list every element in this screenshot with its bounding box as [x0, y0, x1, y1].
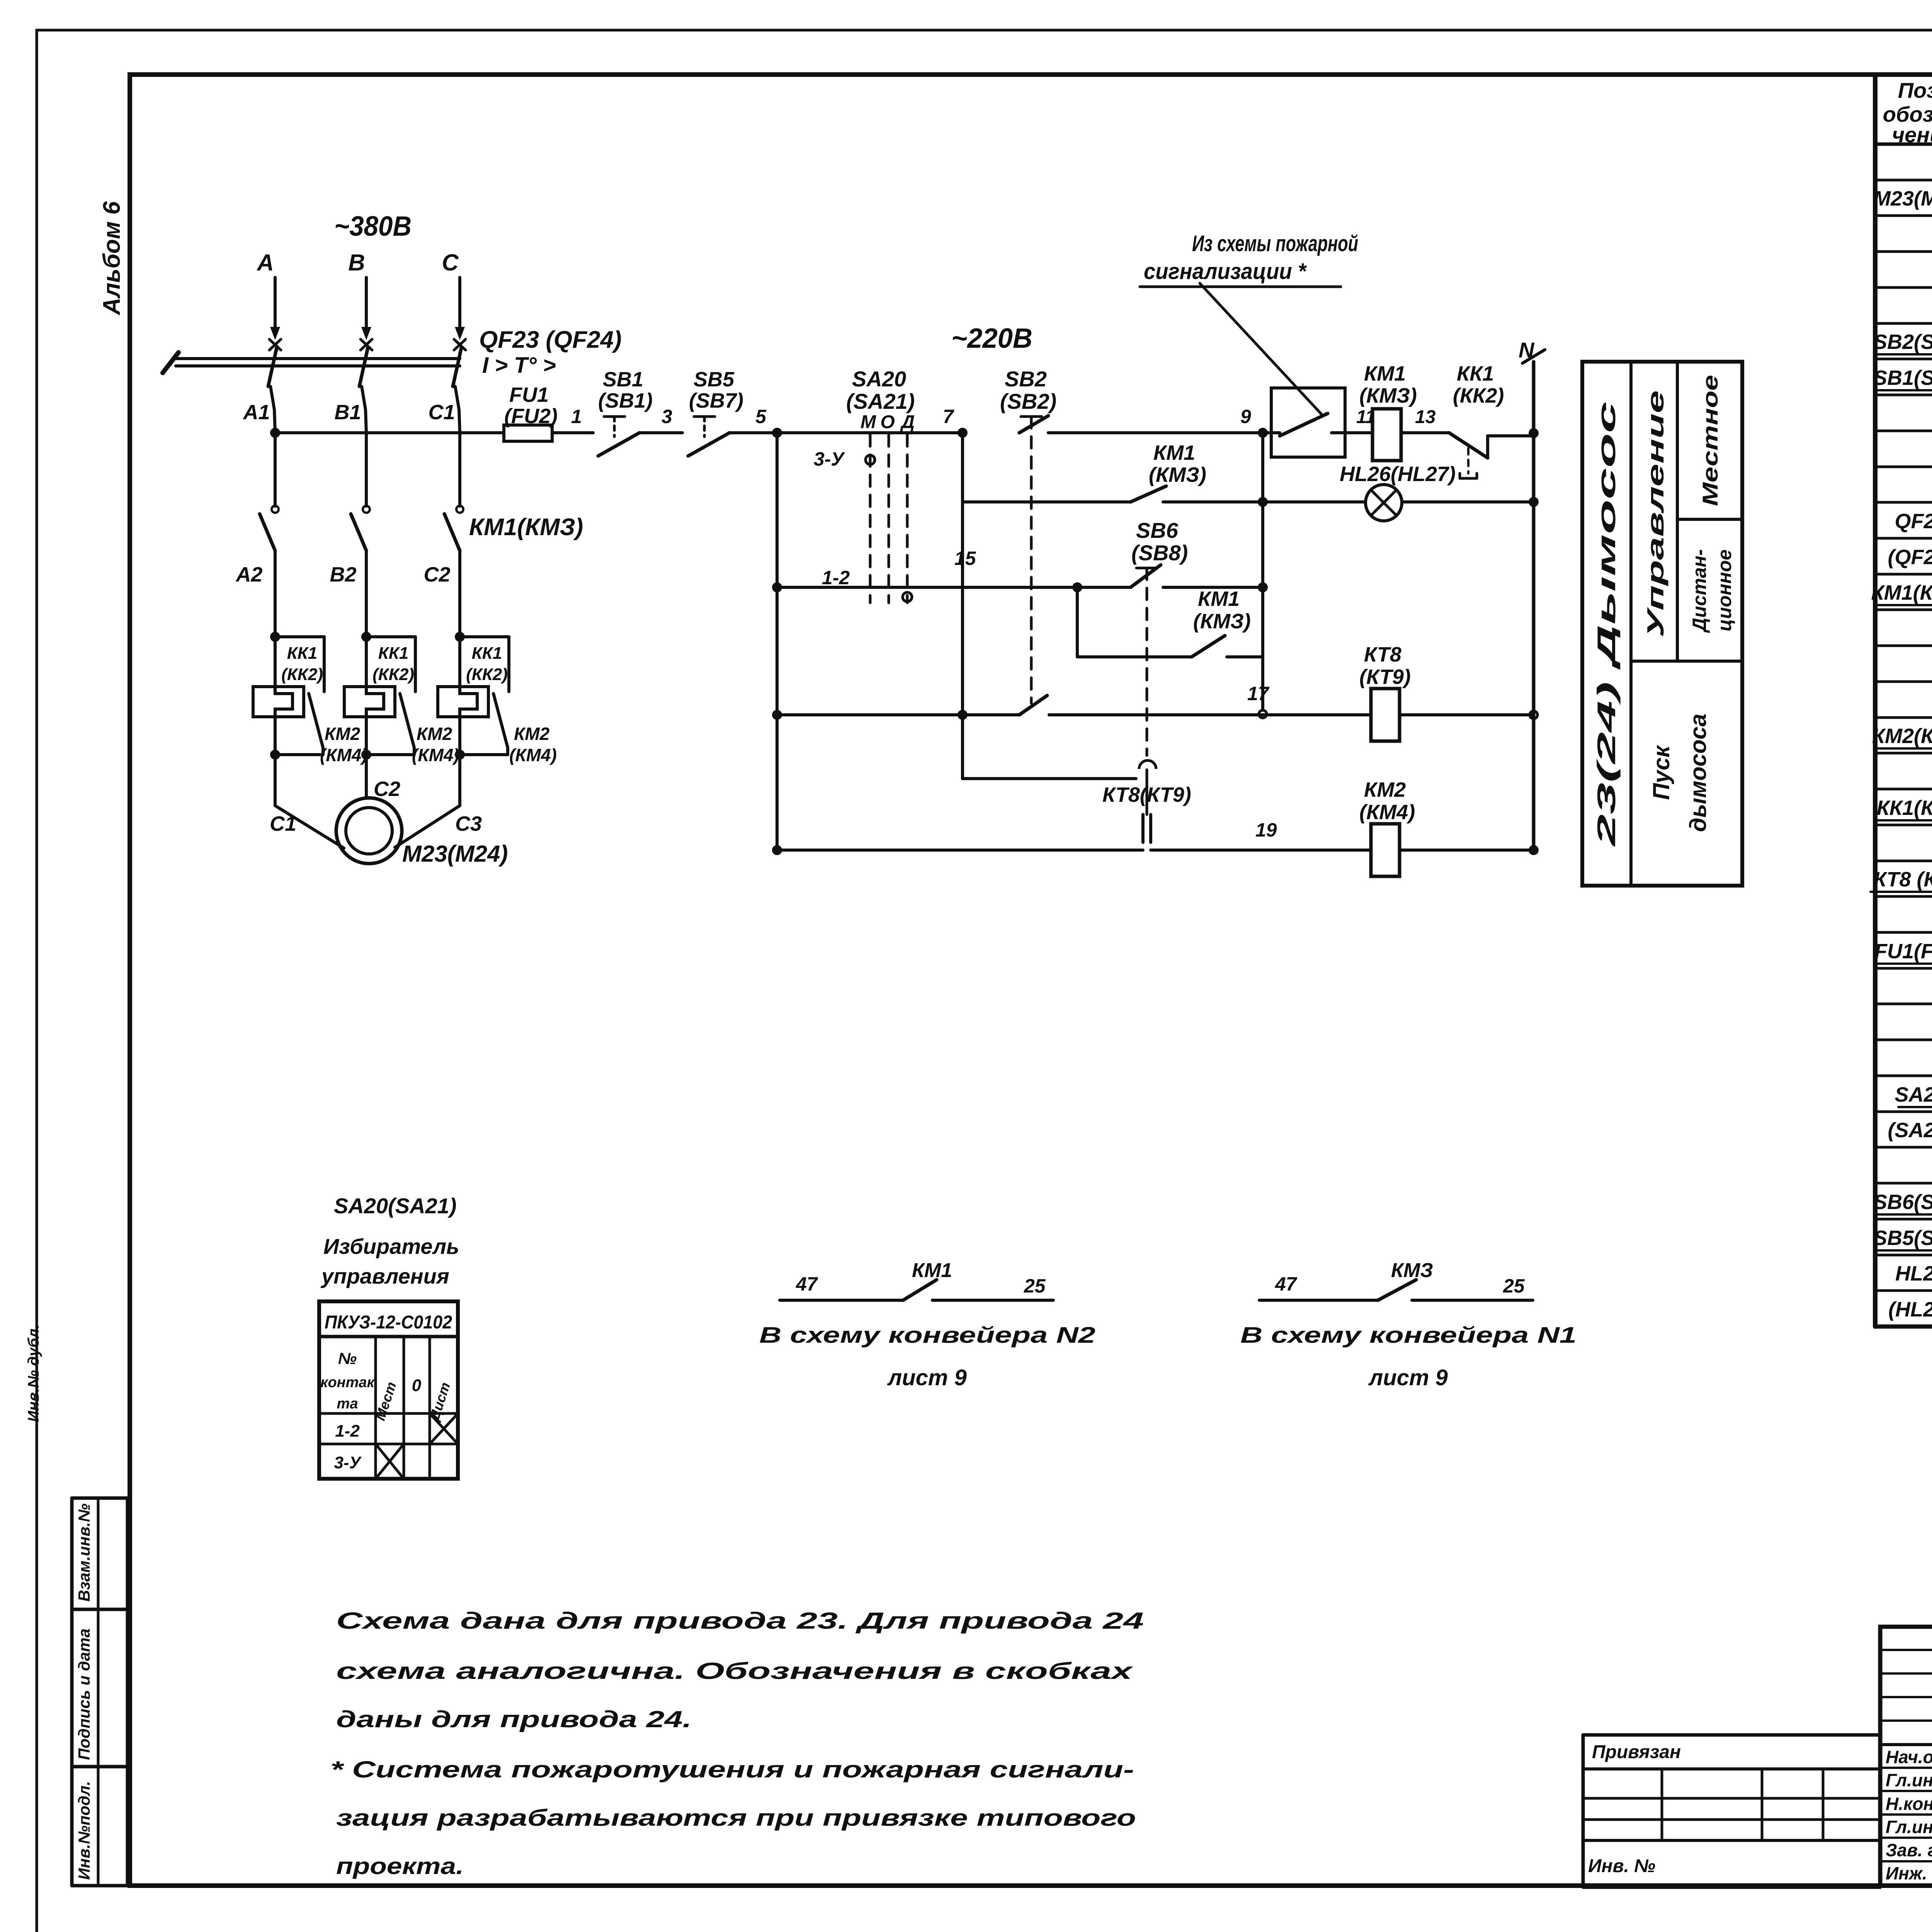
- phase vertical segments down to KM1 contacts: [274, 433, 277, 506]
- svg-text:№: №: [338, 1349, 357, 1367]
- svg-text:С3: С3: [455, 812, 482, 835]
- svg-text:КТ8: КТ8: [1364, 643, 1401, 666]
- svg-text:0: 0: [412, 1376, 422, 1395]
- svg-text:SB5: SB5: [694, 368, 735, 391]
- KK1 release dashed link and symbol: [1467, 448, 1469, 473]
- svg-text:(SA21): (SA21): [1888, 1119, 1932, 1142]
- svg-text:А1: А1: [242, 401, 270, 424]
- svg-text:дымососа: дымососа: [1685, 714, 1711, 832]
- svg-text:9: 9: [1240, 406, 1251, 427]
- svg-text:КМ1: КМ1: [1364, 362, 1406, 385]
- svg-text:та: та: [337, 1396, 358, 1412]
- svg-text:ционное: ционное: [1714, 549, 1735, 631]
- svg-text:(КК2): (КК2): [466, 665, 508, 684]
- svg-text:О: О: [880, 412, 895, 432]
- breaker pole blade: [453, 348, 461, 386]
- svg-text:КТ8(КТ9): КТ8(КТ9): [1102, 783, 1191, 806]
- svg-text:(SB2): (SB2): [1000, 389, 1056, 413]
- svg-text:SB2: SB2: [1005, 367, 1047, 391]
- svg-text:(КК2): (КК2): [1453, 384, 1504, 407]
- svg-text:SA20: SA20: [852, 367, 906, 391]
- svg-text:SB1(SB1): SB1(SB1): [1873, 366, 1932, 389]
- svg-text:(КК2): (КК2): [281, 665, 323, 684]
- svg-text:25: 25: [1503, 1275, 1525, 1297]
- svg-text:* Система пожаротушения и: * Система пожаротушения и пожарная сигна…: [330, 1757, 1134, 1782]
- svg-text:КМ2: КМ2: [1364, 778, 1406, 801]
- svg-text:SA20: SA20: [1895, 1083, 1932, 1106]
- rung 15 with SB6(SB8): [776, 433, 779, 850]
- svg-text:1-2: 1-2: [822, 567, 850, 588]
- svg-text:(КМ4): (КМ4): [320, 745, 367, 765]
- svg-text:(SB1): (SB1): [598, 389, 653, 412]
- breaker contact cross mark phase В: [361, 339, 372, 350]
- svg-text:Гл.инж.пр.: Гл.инж.пр.: [1886, 1817, 1932, 1837]
- wire node 1: [552, 431, 593, 434]
- svg-text:~380В: ~380В: [334, 211, 412, 242]
- svg-text:47: 47: [1275, 1273, 1298, 1295]
- KM1 self hold rung: [961, 433, 964, 502]
- wire node 5: [730, 431, 963, 434]
- svg-text:Инв. №: Инв. №: [1588, 1856, 1655, 1876]
- svg-text:КК1: КК1: [287, 644, 318, 663]
- svg-text:1-2: 1-2: [335, 1422, 360, 1440]
- svg-text:(QF24): (QF24): [1888, 546, 1932, 569]
- svg-text:(КТ9): (КТ9): [1359, 665, 1411, 689]
- breaker contact cross mark phase С: [454, 339, 466, 350]
- svg-text:С: С: [442, 250, 459, 276]
- svg-text:КМ1: КМ1: [1153, 441, 1195, 464]
- svg-text:А2: А2: [235, 563, 262, 586]
- parts list table grid: [1873, 75, 1878, 1327]
- svg-text:КМ2: КМ2: [514, 724, 550, 744]
- svg-text:А: А: [256, 250, 274, 276]
- svg-text:QF23: QF23: [1895, 510, 1932, 533]
- rung 19 with contactor coil KM2(KM4): [772, 845, 782, 855]
- svg-text:сигнализации *: сигнализации *: [1144, 259, 1307, 284]
- title block outline: [1880, 1627, 1932, 1886]
- svg-text:(КК2): (КК2): [372, 665, 414, 684]
- thermal relay KK1(KK2) element: [270, 632, 280, 642]
- svg-text:Зав. гр.: Зав. гр.: [1886, 1840, 1932, 1860]
- svg-text:(КМ4): (КМ4): [412, 745, 459, 765]
- svg-text:N: N: [1519, 338, 1535, 362]
- svg-text:КМ1: КМ1: [912, 1259, 952, 1282]
- X mark contact 3-U Mest: [376, 1444, 404, 1479]
- svg-text:КК1: КК1: [1457, 362, 1494, 385]
- wire node 3: [639, 431, 682, 434]
- svg-text:17: 17: [1247, 683, 1270, 704]
- rung 17 with time relay coil KT8(KT9): [772, 710, 782, 720]
- function designation box: [1582, 362, 1742, 886]
- KM3 aux contact to conveyor 1: [1259, 1299, 1378, 1302]
- svg-text:С2: С2: [374, 777, 400, 801]
- svg-text:7: 7: [943, 406, 954, 427]
- breaker contact cross mark phase А: [269, 339, 281, 350]
- svg-text:(КМЗ): (КМЗ): [1149, 463, 1206, 486]
- svg-text:SA20(SA21): SA20(SA21): [334, 1194, 456, 1218]
- svg-text:лист 9: лист 9: [887, 1365, 967, 1390]
- svg-text:В1: В1: [334, 401, 361, 424]
- KM2(KM4) bypass contact: [400, 694, 414, 748]
- svg-text:КМ1: КМ1: [1198, 587, 1240, 611]
- svg-text:3: 3: [662, 406, 672, 427]
- svg-text:С1: С1: [428, 401, 455, 424]
- selector contact table PKUZ-12-C0102: [319, 1301, 458, 1479]
- svg-text:В схему конвейера N2: В схему конвейера N2: [759, 1323, 1095, 1348]
- svg-text:Взам.инв.№: Взам.инв.№: [75, 1503, 93, 1602]
- signature table small upper rows: [1880, 1649, 1932, 1651]
- svg-text:В схему конвейера N1: В схему конвейера N1: [1240, 1323, 1577, 1348]
- breaker pole blade: [268, 348, 277, 386]
- svg-text:(SA21): (SA21): [846, 389, 915, 413]
- KT8 delayed contact branch: [961, 715, 964, 779]
- svg-text:HL26(HL27): HL26(HL27): [1340, 463, 1456, 486]
- wire node 13: [1401, 431, 1449, 434]
- motor feeder wires: [274, 755, 277, 806]
- svg-text:КМ2(КМ4): КМ2(КМ4): [1872, 724, 1932, 748]
- SB2 mechanical dashed link: [1030, 417, 1033, 703]
- svg-text:Н.контр: Н.контр: [1886, 1794, 1932, 1814]
- svg-text:КМ2: КМ2: [325, 724, 361, 744]
- svg-text:М23(М24): М23(М24): [1873, 187, 1932, 210]
- privyazan block: [1583, 1733, 1880, 1737]
- KM2(KM4) bypass contact: [493, 694, 508, 748]
- svg-text:SB2(SB2): SB2(SB2): [1873, 330, 1932, 354]
- svg-text:КМ1(КМЗ): КМ1(КМЗ): [469, 514, 583, 541]
- svg-text:(КМЗ): (КМЗ): [1193, 610, 1251, 633]
- breaker pole blade: [359, 348, 368, 386]
- X mark contact 1-2 Dist: [430, 1413, 458, 1444]
- svg-text:(HL27): (HL27): [1888, 1298, 1932, 1321]
- svg-text:15: 15: [954, 548, 976, 569]
- svg-text:даны для привода 24.: даны для привода 24.: [336, 1706, 692, 1732]
- svg-text:FU1(FU2): FU1(FU2): [1874, 940, 1932, 963]
- control tap node on phase A: [270, 428, 280, 438]
- svg-text:КК1: КК1: [378, 644, 409, 663]
- svg-text:13: 13: [1415, 407, 1436, 427]
- svg-text:3-У: 3-У: [334, 1453, 362, 1472]
- svg-text:QF23 (QF24): QF23 (QF24): [479, 327, 622, 353]
- svg-text:Дистан-: Дистан-: [1689, 549, 1710, 633]
- svg-text:управления: управления: [320, 1264, 449, 1288]
- KM1 aux contact to conveyor 2: [780, 1299, 903, 1302]
- svg-text:(SB7): (SB7): [689, 389, 743, 412]
- SA20 dashed position lines: [869, 435, 872, 603]
- svg-text:Управление: Управление: [1643, 390, 1668, 638]
- svg-text:КМ2: КМ2: [417, 724, 452, 744]
- svg-text:ПКУЗ-12-С0102: ПКУЗ-12-С0102: [325, 1312, 452, 1333]
- signature table row lines: [1880, 1767, 1932, 1769]
- svg-text:SB5(SB7): SB5(SB7): [1873, 1226, 1932, 1250]
- svg-text:КМ1(КМЗ): КМ1(КМЗ): [1871, 581, 1932, 604]
- breaker handle tick: [163, 352, 179, 373]
- lamp rung with HL26(HL27): [1261, 433, 1264, 502]
- svg-text:Поз.: Поз.: [1898, 78, 1932, 102]
- svg-text:Подпись и дата: Подпись и дата: [75, 1629, 93, 1760]
- fire alarm interface box: [1271, 388, 1345, 457]
- svg-text:В: В: [348, 250, 365, 276]
- thermal relay KK1(KK2) element: [455, 632, 465, 642]
- svg-text:Альбом 6: Альбом 6: [99, 201, 125, 316]
- KM1 main contacts three poles: [272, 506, 279, 513]
- svg-text:зация разрабатываются при: зация разрабатываются при привязке типов…: [336, 1805, 1136, 1831]
- svg-text:3-У: 3-У: [814, 448, 845, 470]
- svg-text:47: 47: [796, 1273, 818, 1295]
- svg-text:КМЗ: КМЗ: [1391, 1259, 1433, 1282]
- svg-text:(КМ4): (КМ4): [1359, 801, 1415, 824]
- svg-text:С2: С2: [423, 563, 450, 586]
- svg-text:~220В: ~220В: [951, 323, 1032, 354]
- svg-text:(КМ4): (КМ4): [509, 745, 557, 765]
- neutral N bus: [1529, 428, 1539, 438]
- svg-text:(FU2): (FU2): [504, 405, 558, 428]
- svg-text:SB6: SB6: [1136, 518, 1179, 543]
- svg-text:Инв.№подл.: Инв.№подл.: [75, 1781, 93, 1880]
- svg-text:КК1(КК2): КК1(КК2): [1877, 796, 1932, 820]
- svg-text:проекта.: проекта.: [336, 1853, 464, 1879]
- svg-text:Схема дана для привода: Схема дана для привода 23. Для привода 2…: [336, 1608, 1144, 1634]
- motor M23(M24) circle: [336, 798, 402, 864]
- svg-text:Инж.: Инж.: [1886, 1863, 1927, 1883]
- left margin stamp column: [70, 1498, 74, 1886]
- KM2(KM4) bypass contact: [309, 694, 323, 748]
- breaker QF23 linkage double bar: [176, 357, 460, 360]
- svg-text:КК1: КК1: [472, 644, 502, 663]
- svg-text:чение: чение: [1892, 122, 1932, 147]
- svg-text:FU1: FU1: [509, 383, 549, 406]
- svg-text:Из схемы пожарной: Из схемы пожарной: [1192, 231, 1358, 256]
- svg-text:Д: Д: [900, 412, 915, 432]
- svg-text:Инв.№ дубл.: Инв.№ дубл.: [25, 1324, 42, 1422]
- svg-text:Местное: Местное: [1698, 375, 1722, 506]
- svg-text:В2: В2: [330, 563, 356, 586]
- svg-text:25: 25: [1024, 1275, 1046, 1297]
- svg-text:Привязан: Привязан: [1592, 1742, 1681, 1762]
- svg-text:контак: контак: [320, 1374, 375, 1391]
- svg-text:КТ8 (КТ9): КТ8 (КТ9): [1874, 868, 1932, 891]
- svg-text:(SB8): (SB8): [1131, 541, 1188, 565]
- thermal relay KK1(KK2) element: [361, 632, 371, 642]
- fire alarm callout line: [1200, 283, 1321, 414]
- KM1 second aux contact bracket: [1076, 587, 1079, 657]
- fuse FU1(FU2): [275, 431, 504, 434]
- svg-text:SB6(SB2): SB6(SB2): [1873, 1190, 1932, 1214]
- svg-text:Нач.отд: Нач.отд: [1886, 1747, 1932, 1767]
- svg-text:С1: С1: [270, 812, 296, 835]
- svg-text:лист 9: лист 9: [1368, 1365, 1448, 1390]
- svg-text:1: 1: [571, 406, 582, 427]
- svg-text:5: 5: [755, 406, 767, 427]
- svg-text:М: М: [861, 412, 876, 432]
- svg-text:М23(М24): М23(М24): [402, 841, 508, 867]
- svg-text:Пуск: Пуск: [1648, 745, 1674, 800]
- svg-text:Гл.инж.пр: Гл.инж.пр: [1886, 1770, 1932, 1790]
- svg-text:HL26: HL26: [1895, 1262, 1932, 1285]
- svg-text:схема аналогична. Обозн: схема аналогична. Обозначения в скобках: [336, 1658, 1134, 1684]
- svg-text:I > T° >: I > T° >: [482, 353, 556, 378]
- svg-text:19: 19: [1255, 819, 1277, 841]
- svg-text:SB1: SB1: [603, 368, 643, 391]
- svg-text:Избиратель: Избиратель: [323, 1234, 459, 1259]
- svg-text:(КМЗ): (КМЗ): [1359, 384, 1417, 407]
- svg-text:23(24) Дымосос: 23(24) Дымосос: [1592, 401, 1621, 847]
